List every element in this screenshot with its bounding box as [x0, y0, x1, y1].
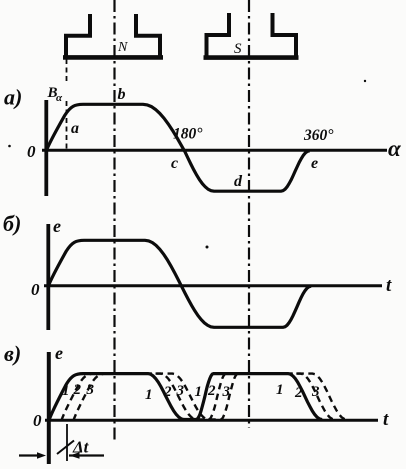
- svg-text:б): б): [3, 211, 21, 236]
- svg-text:0: 0: [33, 411, 42, 430]
- svg-text:2: 2: [73, 382, 82, 398]
- svg-text:3: 3: [86, 382, 95, 398]
- svg-text:а): а): [4, 85, 22, 110]
- svg-text:2: 2: [207, 383, 216, 399]
- svg-text:t: t: [383, 409, 389, 430]
- svg-text:Δt: Δt: [72, 438, 90, 457]
- svg-text:в): в): [4, 341, 21, 366]
- svg-text:3: 3: [222, 384, 231, 400]
- svg-text:e: e: [53, 216, 61, 236]
- svg-text:N: N: [117, 40, 128, 55]
- svg-text:3: 3: [176, 383, 185, 399]
- svg-text:360°: 360°: [303, 127, 334, 144]
- svg-text:e: e: [311, 155, 318, 172]
- svg-text:1: 1: [62, 383, 70, 399]
- svg-text:1: 1: [145, 387, 153, 403]
- svg-text:0: 0: [27, 142, 36, 161]
- svg-text:1: 1: [195, 384, 203, 400]
- svg-text:α: α: [388, 136, 402, 161]
- svg-text:2: 2: [163, 384, 172, 400]
- svg-text:a: a: [71, 120, 79, 137]
- svg-text:0: 0: [31, 280, 40, 299]
- svg-text:1: 1: [276, 382, 284, 398]
- svg-text:3: 3: [311, 384, 320, 400]
- svg-text:α: α: [56, 92, 63, 104]
- svg-text:t: t: [386, 275, 392, 296]
- svg-text:2: 2: [294, 385, 303, 401]
- svg-text:b: b: [118, 86, 126, 103]
- svg-text:180°: 180°: [173, 126, 203, 143]
- svg-text:e: e: [55, 343, 63, 363]
- svg-text:d: d: [234, 173, 243, 190]
- svg-text:S: S: [234, 41, 242, 57]
- svg-text:c: c: [171, 155, 178, 172]
